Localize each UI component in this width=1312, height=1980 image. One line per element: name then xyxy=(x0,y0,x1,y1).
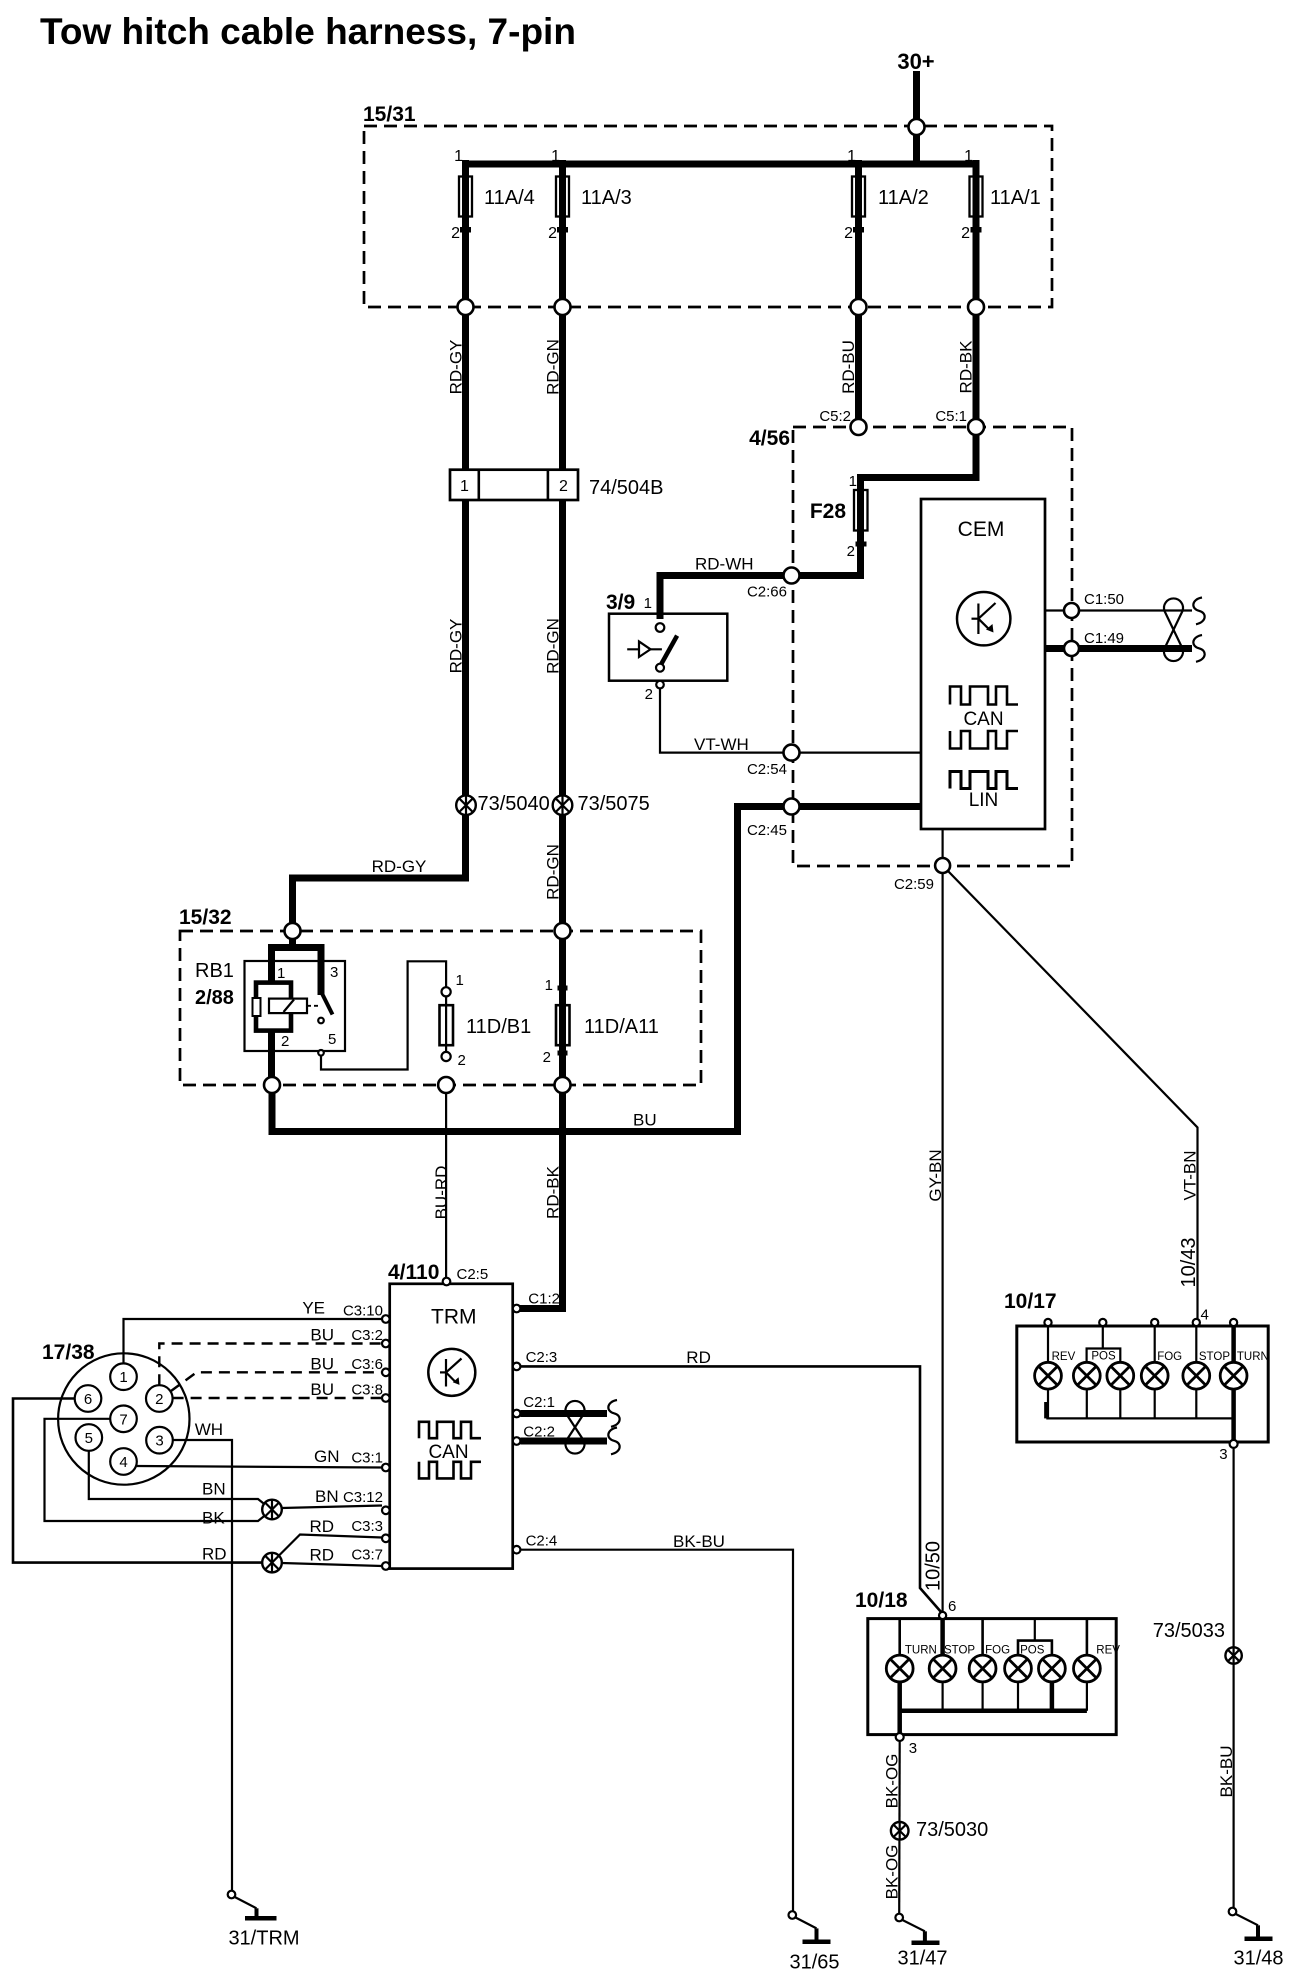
lamp cluster 10/18 xyxy=(855,1589,1116,1735)
svg-text:Tow hitch cable harness, 7-pin: Tow hitch cable harness, 7-pin xyxy=(40,11,576,52)
wire BK (pin7 to splice) xyxy=(45,1419,266,1528)
connector pin 4 xyxy=(110,1448,137,1475)
svg-text:RD: RD xyxy=(686,1348,711,1367)
wire RD-WH (F28 pin2 via C2:66 to switch 3/9) xyxy=(660,555,861,620)
node RD-GN at 15/32 border xyxy=(555,923,571,939)
svg-text:2: 2 xyxy=(155,1391,163,1408)
connector pin 5 xyxy=(76,1424,103,1451)
10/18 pin 6 xyxy=(939,1612,946,1619)
svg-text:BU: BU xyxy=(310,1326,334,1345)
svg-text:C3:7: C3:7 xyxy=(351,1547,383,1564)
wire BU (relay out via C2:45 to CEM) xyxy=(272,807,921,1132)
svg-text:VT-WH: VT-WH xyxy=(694,735,749,754)
10/17 lamp FOG xyxy=(1141,1362,1168,1389)
fuse 11A/4 xyxy=(451,148,535,303)
connector pin 6 xyxy=(75,1385,102,1412)
splice 73/5033 xyxy=(1153,1620,1242,1664)
svg-text:10/17: 10/17 xyxy=(1004,1290,1057,1313)
twisted-pair symbol at CEM C1:50/C1:49 xyxy=(1164,598,1183,661)
wire-break symbol at C2:1 xyxy=(608,1400,619,1427)
svg-text:VT-BN: VT-BN xyxy=(1181,1150,1200,1200)
TRM pin C1:2 xyxy=(513,1290,560,1312)
svg-text:10/43: 10/43 xyxy=(1178,1237,1200,1287)
svg-text:1: 1 xyxy=(119,1369,127,1386)
svg-text:31/47: 31/47 xyxy=(897,1948,947,1970)
svg-text:5: 5 xyxy=(328,1031,336,1048)
svg-text:31/TRM: 31/TRM xyxy=(228,1928,299,1950)
wire BU dashed (pin2 to C3:2) xyxy=(159,1326,382,1386)
svg-text:RD-GY: RD-GY xyxy=(447,340,466,395)
10/17 internal return bus xyxy=(1046,1389,1233,1440)
switch 3/9 xyxy=(606,591,727,703)
svg-text:2: 2 xyxy=(543,1049,551,1066)
10/17 REV lamp feed xyxy=(1047,1326,1049,1362)
wire C2:1 (thick, to twisted pair) xyxy=(520,1410,607,1417)
svg-text:74/504B: 74/504B xyxy=(589,477,664,499)
svg-text:RD: RD xyxy=(310,1517,335,1536)
wire RD (TRM C2:3 to 10/18 pin6 via 10/50) xyxy=(520,1348,944,1613)
svg-text:REV: REV xyxy=(1052,1351,1076,1363)
svg-text:C3:1: C3:1 xyxy=(351,1450,383,1467)
10/17 STOP lamp feed xyxy=(1195,1326,1197,1362)
svg-text:RD-GN: RD-GN xyxy=(544,844,563,900)
svg-text:10/50: 10/50 xyxy=(923,1541,945,1591)
svg-text:RB1: RB1 xyxy=(195,960,234,982)
svg-text:2: 2 xyxy=(844,225,853,242)
TRM pin C3:10 xyxy=(343,1303,390,1323)
svg-text:1: 1 xyxy=(277,965,285,982)
svg-text:WH: WH xyxy=(195,1420,223,1439)
svg-text:11D/A11: 11D/A11 xyxy=(584,1016,659,1038)
10/18 STOP lamp feed (thick) xyxy=(940,1619,945,1656)
svg-text:3: 3 xyxy=(1219,1446,1227,1463)
svg-text:2: 2 xyxy=(847,543,855,560)
wire-break symbol upper xyxy=(1193,598,1204,625)
node relay pin2 at 15/32 border xyxy=(264,1077,280,1093)
twisted-pair symbol at TRM C2:1/C2:2 xyxy=(566,1401,585,1454)
svg-text:1: 1 xyxy=(454,148,463,165)
svg-text:73/5033: 73/5033 xyxy=(1153,1620,1225,1642)
svg-text:3: 3 xyxy=(155,1433,163,1450)
wire C5:1 to fuse F28 xyxy=(849,434,976,576)
node at 15/31 border on 30+ feed xyxy=(909,119,925,135)
svg-text:6: 6 xyxy=(84,1391,92,1408)
wire-break symbol at C2:2 xyxy=(608,1428,619,1455)
ground 31/48 xyxy=(1229,1908,1284,1970)
svg-text:YE: YE xyxy=(302,1299,325,1318)
svg-text:C2:3: C2:3 xyxy=(526,1349,558,1366)
svg-text:31/65: 31/65 xyxy=(789,1952,839,1974)
wire BU dashed (pin2 to C3:6) xyxy=(171,1354,382,1391)
svg-text:BN: BN xyxy=(315,1487,339,1506)
wire-break symbol lower xyxy=(1193,635,1204,662)
fuse box 15/31 (dashed enclosure) xyxy=(363,103,1052,307)
fuse 11A/2 xyxy=(844,148,929,303)
10/18 POS feed bracket xyxy=(1018,1619,1052,1656)
TRM pin C2:1 xyxy=(513,1394,555,1417)
wire RD (splice to C3:3) xyxy=(279,1517,382,1556)
wire BK-OG (10/18 pin3 to ground 31/47) xyxy=(883,1741,902,1914)
svg-text:BU: BU xyxy=(310,1354,334,1373)
svg-text:RD-GN: RD-GN xyxy=(544,618,563,674)
10/17 lamp POS b xyxy=(1107,1362,1134,1389)
svg-text:2: 2 xyxy=(645,686,653,703)
svg-text:RD: RD xyxy=(310,1546,335,1565)
TRM pin C3:12 xyxy=(343,1489,390,1514)
svg-text:C1:50: C1:50 xyxy=(1084,591,1124,608)
wire RD-GN (11A/3 pin2 down through 74/504B) xyxy=(544,307,563,927)
svg-text:C5:2: C5:2 xyxy=(819,408,851,425)
10/17 TURN lamp feed (thick) xyxy=(1231,1326,1236,1362)
TRM pin C3:6 xyxy=(351,1356,389,1376)
svg-text:2: 2 xyxy=(451,225,460,242)
wire C1:49 (thick, to twisted pair) xyxy=(1045,645,1192,652)
wire BU dashed (pin2 to C3:8) xyxy=(173,1380,382,1399)
10/18 REV lamp feed xyxy=(1086,1619,1089,1656)
svg-text:C1:49: C1:49 xyxy=(1084,630,1124,647)
svg-text:FOG: FOG xyxy=(1157,1351,1182,1363)
svg-text:2: 2 xyxy=(548,225,557,242)
10/17 FOG lamp feed xyxy=(1154,1326,1156,1362)
svg-text:C3:12: C3:12 xyxy=(343,1489,383,1506)
ground 31/47 xyxy=(895,1914,947,1970)
svg-text:RD-BU: RD-BU xyxy=(839,340,858,394)
splice 73/5040 xyxy=(456,793,550,815)
splice 73/5075 xyxy=(553,793,650,815)
TRM pin C2:2 xyxy=(513,1424,555,1445)
svg-text:1: 1 xyxy=(456,972,464,989)
svg-text:C3:2: C3:2 xyxy=(351,1327,383,1344)
10/17 top pins xyxy=(1044,1319,1237,1326)
svg-text:3/9: 3/9 xyxy=(606,591,635,614)
node 11D/A11 pin2 at 15/32 border xyxy=(555,1077,571,1093)
svg-text:REV: REV xyxy=(1096,1645,1120,1657)
svg-text:BU: BU xyxy=(310,1380,334,1399)
10/17 lamp REV xyxy=(1035,1362,1062,1389)
svg-text:11D/B1: 11D/B1 xyxy=(466,1016,531,1038)
10/18 lamp TURN xyxy=(886,1655,913,1682)
svg-text:11A/4: 11A/4 xyxy=(484,187,535,209)
svg-text:4/110: 4/110 xyxy=(388,1261,439,1284)
wire bus from 30+ xyxy=(462,161,976,168)
svg-text:1: 1 xyxy=(545,977,553,994)
10/17 lamp TURN xyxy=(1220,1362,1247,1389)
TRM pin C3:3 xyxy=(351,1518,389,1542)
svg-text:TRM: TRM xyxy=(431,1306,477,1329)
svg-text:C3:8: C3:8 xyxy=(351,1382,383,1399)
svg-text:1: 1 xyxy=(460,478,469,495)
wire C1:50 (thin, to twisted pair) xyxy=(1045,609,1192,611)
10/17 lamp STOP xyxy=(1183,1362,1210,1389)
10/18 lamp labels xyxy=(905,1645,1120,1657)
10/17 lamp labels xyxy=(1052,1351,1269,1364)
svg-text:2: 2 xyxy=(961,225,970,242)
svg-text:6: 6 xyxy=(948,1598,956,1615)
10/17 pin 3 xyxy=(1219,1440,1237,1463)
CEM CAN symbol xyxy=(950,687,1018,749)
svg-text:1: 1 xyxy=(644,595,652,612)
wire BN (pin5 to splice) xyxy=(89,1451,266,1505)
svg-text:BK-BU: BK-BU xyxy=(1217,1746,1236,1798)
svg-text:1: 1 xyxy=(551,148,560,165)
relay/fuse box 15/32 (dashed enclosure) xyxy=(179,906,701,1085)
svg-text:2/88: 2/88 xyxy=(195,987,234,1009)
svg-text:2: 2 xyxy=(281,1033,289,1050)
wire RD (pin6 to splice) xyxy=(13,1399,262,1564)
10/18 lamp STOP xyxy=(929,1655,956,1682)
svg-text:73/5075: 73/5075 xyxy=(578,793,650,815)
TRM pin C3:1 xyxy=(351,1450,389,1472)
svg-text:10/18: 10/18 xyxy=(855,1589,908,1612)
10/18 lamp REV xyxy=(1074,1655,1101,1682)
svg-text:7: 7 xyxy=(119,1411,127,1428)
svg-text:LIN: LIN xyxy=(969,790,999,811)
wire VT-WH (switch pin2 via C2:54 to CEM) xyxy=(660,688,921,754)
connector 74/504B xyxy=(450,470,664,500)
10/17 POS feed bracket xyxy=(1087,1326,1121,1362)
svg-text:BK-OG: BK-OG xyxy=(883,1845,902,1900)
svg-text:STOP: STOP xyxy=(1199,1351,1230,1363)
TRM control-unit symbol (clock) xyxy=(428,1349,475,1396)
svg-text:1: 1 xyxy=(849,473,857,490)
node C1:49 xyxy=(1064,630,1124,656)
svg-text:4: 4 xyxy=(119,1454,127,1471)
svg-text:2: 2 xyxy=(458,1052,466,1069)
svg-text:RD-GY: RD-GY xyxy=(372,857,427,876)
wire RD-BK (11A/1 pin2 to C5:1) xyxy=(957,307,977,423)
TRM pin C3:7 xyxy=(351,1547,389,1570)
control module CEM xyxy=(921,499,1045,829)
CEM LIN symbol xyxy=(950,772,1018,812)
svg-text:RD-BK: RD-BK xyxy=(544,1165,563,1219)
svg-text:15/32: 15/32 xyxy=(179,906,232,929)
splice 73/5030 xyxy=(891,1819,988,1841)
svg-text:RD-BK: RD-BK xyxy=(957,340,976,394)
svg-text:15/31: 15/31 xyxy=(363,103,416,126)
wire RD-BU (11A/2 pin2 to C5:2) xyxy=(839,307,859,423)
fuse 11D/A11 xyxy=(543,939,659,1077)
svg-text:11A/1: 11A/1 xyxy=(990,187,1041,209)
10/18 lamp FOG xyxy=(969,1655,996,1682)
svg-text:RD-WH: RD-WH xyxy=(695,555,754,574)
svg-text:C5:1: C5:1 xyxy=(935,408,967,425)
svg-text:30+: 30+ xyxy=(897,49,934,74)
svg-text:TURN: TURN xyxy=(1237,1351,1269,1363)
svg-text:BU: BU xyxy=(633,1111,657,1130)
svg-text:17/38: 17/38 xyxy=(42,1341,95,1364)
node 11D/B1 pin2 at 15/32 border xyxy=(438,1077,454,1093)
node 11A/3 at 15/31 border xyxy=(555,299,571,315)
wire C2:2 (thick, to twisted pair) xyxy=(520,1438,607,1445)
svg-text:C2:54: C2:54 xyxy=(747,761,787,778)
splice RD xyxy=(262,1553,282,1573)
10/18 TURN lamp feed xyxy=(898,1619,901,1656)
svg-text:RD-GN: RD-GN xyxy=(544,339,563,395)
svg-text:RD: RD xyxy=(202,1545,227,1564)
svg-text:1: 1 xyxy=(964,148,973,165)
svg-text:C2:59: C2:59 xyxy=(894,876,934,893)
connector pin 2 xyxy=(146,1385,173,1412)
svg-text:BN: BN xyxy=(202,1480,226,1499)
svg-text:TURN: TURN xyxy=(905,1645,937,1657)
node C2:54 xyxy=(747,745,800,778)
TRM pin C2:5 xyxy=(443,1266,488,1285)
fuse 11A/1 xyxy=(961,148,1041,303)
10/17 lamp POS a xyxy=(1073,1362,1100,1389)
wire BK-BU (10/17 pin3 to ground 31/48) xyxy=(1217,1448,1236,1908)
svg-text:4/56: 4/56 xyxy=(749,427,790,450)
svg-text:73/5040: 73/5040 xyxy=(478,793,550,815)
wire BN (splice to C3:12) xyxy=(282,1487,382,1508)
10/18 FOG lamp feed xyxy=(981,1619,984,1656)
wire RD (splice to C3:7) xyxy=(282,1546,382,1567)
10/18 lamp POS a xyxy=(1005,1655,1032,1682)
10/18 pin 3 xyxy=(896,1733,917,1757)
node C2:59 xyxy=(894,858,950,893)
svg-text:BK: BK xyxy=(202,1509,225,1528)
wire GY-BN (C2:59 to 10/18 pin6) xyxy=(926,873,945,1612)
4/56 CEM assembly (dashed enclosure) xyxy=(749,427,1072,866)
svg-text:4: 4 xyxy=(1201,1307,1209,1324)
svg-text:C2:1: C2:1 xyxy=(523,1394,555,1411)
wire GN (pin4 to C3:1) xyxy=(137,1447,382,1468)
CEM control-unit symbol (clock) xyxy=(957,592,1010,645)
wire RD-BK (11D/A11 to TRM C1:2) xyxy=(519,1093,563,1309)
connector pin 3 xyxy=(146,1427,173,1454)
svg-text:C1:2: C1:2 xyxy=(528,1290,560,1307)
node C2:45 xyxy=(747,799,800,840)
svg-text:F28: F28 xyxy=(810,500,847,523)
TRM pin C3:2 xyxy=(351,1327,389,1347)
svg-text:GN: GN xyxy=(314,1447,340,1466)
TRM CAN symbol xyxy=(419,1422,481,1479)
svg-text:BU-RD: BU-RD xyxy=(432,1166,451,1220)
wire BU-RD (11D/B1 to TRM C2:5) xyxy=(432,1093,451,1278)
svg-text:3: 3 xyxy=(909,1740,917,1757)
fuse 11A/3 xyxy=(548,148,632,303)
svg-text:FOG: FOG xyxy=(985,1645,1010,1657)
ground 31/TRM xyxy=(228,1891,300,1950)
fuse 11D/B1 xyxy=(440,972,532,1069)
node C2:66 xyxy=(747,568,800,601)
svg-text:C2:4: C2:4 xyxy=(526,1533,558,1550)
svg-text:11A/2: 11A/2 xyxy=(878,187,929,209)
svg-text:BK-BU: BK-BU xyxy=(673,1532,725,1551)
svg-text:BK-OG: BK-OG xyxy=(883,1754,902,1809)
svg-text:C3:3: C3:3 xyxy=(351,1518,383,1535)
connector 17/38 (7-pin socket) xyxy=(42,1341,190,1485)
svg-text:11A/3: 11A/3 xyxy=(581,187,632,209)
node C5:2 xyxy=(819,408,866,435)
wire RD-GY (11A/4 pin2 to relay box 15/32) xyxy=(293,307,466,927)
node 11A/4 at 15/31 border xyxy=(458,299,474,315)
TRM pin C2:4 xyxy=(513,1533,557,1554)
svg-text:73/5030: 73/5030 xyxy=(916,1819,988,1841)
svg-text:2: 2 xyxy=(559,478,568,495)
svg-text:POS: POS xyxy=(1020,1645,1045,1657)
relay RB1 2/88 xyxy=(195,939,345,1078)
svg-text:RD-GY: RD-GY xyxy=(447,619,466,674)
svg-text:C3:6: C3:6 xyxy=(351,1356,383,1373)
ground 31/65 xyxy=(789,1911,840,1973)
wire YE (pin1 to C3:10) xyxy=(124,1299,383,1364)
node 11A/1 at 15/31 border xyxy=(968,299,984,315)
connector pin 7 xyxy=(110,1406,137,1433)
svg-text:C3:10: C3:10 xyxy=(343,1303,383,1320)
node 11A/2 at 15/31 border xyxy=(851,299,867,315)
svg-text:CAN: CAN xyxy=(428,1442,468,1463)
wire relay pin5 to fuse 11D/B1 pin1 xyxy=(321,961,446,1069)
wire VT-BN (C2:59 to 10/17 pin4) xyxy=(948,871,1200,1319)
svg-text:POS: POS xyxy=(1091,1351,1116,1363)
TRM pin C3:8 xyxy=(351,1382,389,1402)
10/18 internal return bus xyxy=(898,1682,1087,1735)
svg-text:GY-BN: GY-BN xyxy=(926,1149,945,1201)
svg-text:C2:5: C2:5 xyxy=(457,1266,489,1283)
node 30+ supply xyxy=(897,49,934,164)
10/18 lamp POS b xyxy=(1039,1655,1066,1682)
connector pin 1 xyxy=(110,1363,137,1390)
wire WH (pin3 down to ground 31/TRM) xyxy=(173,1420,232,1891)
svg-text:31/48: 31/48 xyxy=(1233,1948,1283,1970)
node RD-GY at 15/32 border xyxy=(285,923,301,939)
svg-text:STOP: STOP xyxy=(944,1645,975,1657)
svg-text:3: 3 xyxy=(330,964,338,981)
svg-text:CEM: CEM xyxy=(958,518,1005,541)
svg-text:1: 1 xyxy=(847,148,856,165)
svg-text:CAN: CAN xyxy=(963,709,1003,730)
lamp cluster 10/17 xyxy=(1004,1290,1268,1442)
svg-text:C2:66: C2:66 xyxy=(747,584,787,601)
TRM pin C2:3 xyxy=(513,1349,557,1370)
svg-text:5: 5 xyxy=(85,1430,93,1447)
control module TRM 4/110 xyxy=(388,1261,513,1569)
node C5:1 xyxy=(935,408,984,435)
wire BK-BU (TRM C2:4 to ground 31/65) xyxy=(520,1532,793,1911)
node C1:50 xyxy=(1064,591,1124,618)
fuse F28 xyxy=(810,490,868,560)
svg-text:C2:45: C2:45 xyxy=(747,822,787,839)
splice BN/BK xyxy=(262,1500,282,1520)
wire CEM to C2:59 xyxy=(941,829,943,862)
